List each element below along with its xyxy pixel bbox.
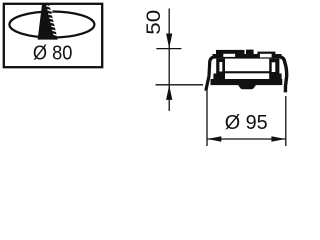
tick top of fixture (156, 48, 181, 50)
svg-text:Ø 80: Ø 80 (33, 42, 73, 64)
arrow down (166, 34, 172, 49)
flange (211, 79, 283, 85)
white slot under left block (223, 54, 235, 57)
extension line left (Ø95) (206, 91, 208, 146)
cut-out ellipse (9, 12, 94, 38)
body wall right (269, 59, 281, 80)
threaded cone symbol (38, 3, 58, 40)
dimension 50 leader line top (168, 9, 170, 112)
spring arm right (277, 56, 287, 92)
dimension line Ø95 (207, 138, 286, 140)
plan-view box frame (4, 4, 102, 67)
svg-text:Ø 95: Ø 95 (225, 111, 268, 134)
fixture top plate (213, 54, 282, 59)
white slot in right block (260, 54, 272, 58)
cone thread notches (46, 6, 58, 36)
arrow left (207, 136, 221, 141)
extension line right (Ø95) (285, 96, 287, 146)
svg-text:50: 50 (144, 10, 165, 35)
body wall left (213, 59, 225, 80)
arrow right (271, 136, 285, 141)
arrow up (166, 85, 172, 100)
terminal block left (216, 50, 245, 55)
terminal block centre (246, 50, 254, 55)
mid shelf line (224, 71, 271, 73)
slot in right wall (272, 62, 276, 72)
terminal block right (257, 52, 275, 58)
tick bottom of fixture (156, 84, 204, 86)
slot in left wall (219, 62, 222, 72)
spring arm left (206, 57, 215, 91)
lamp bump (238, 85, 256, 89)
